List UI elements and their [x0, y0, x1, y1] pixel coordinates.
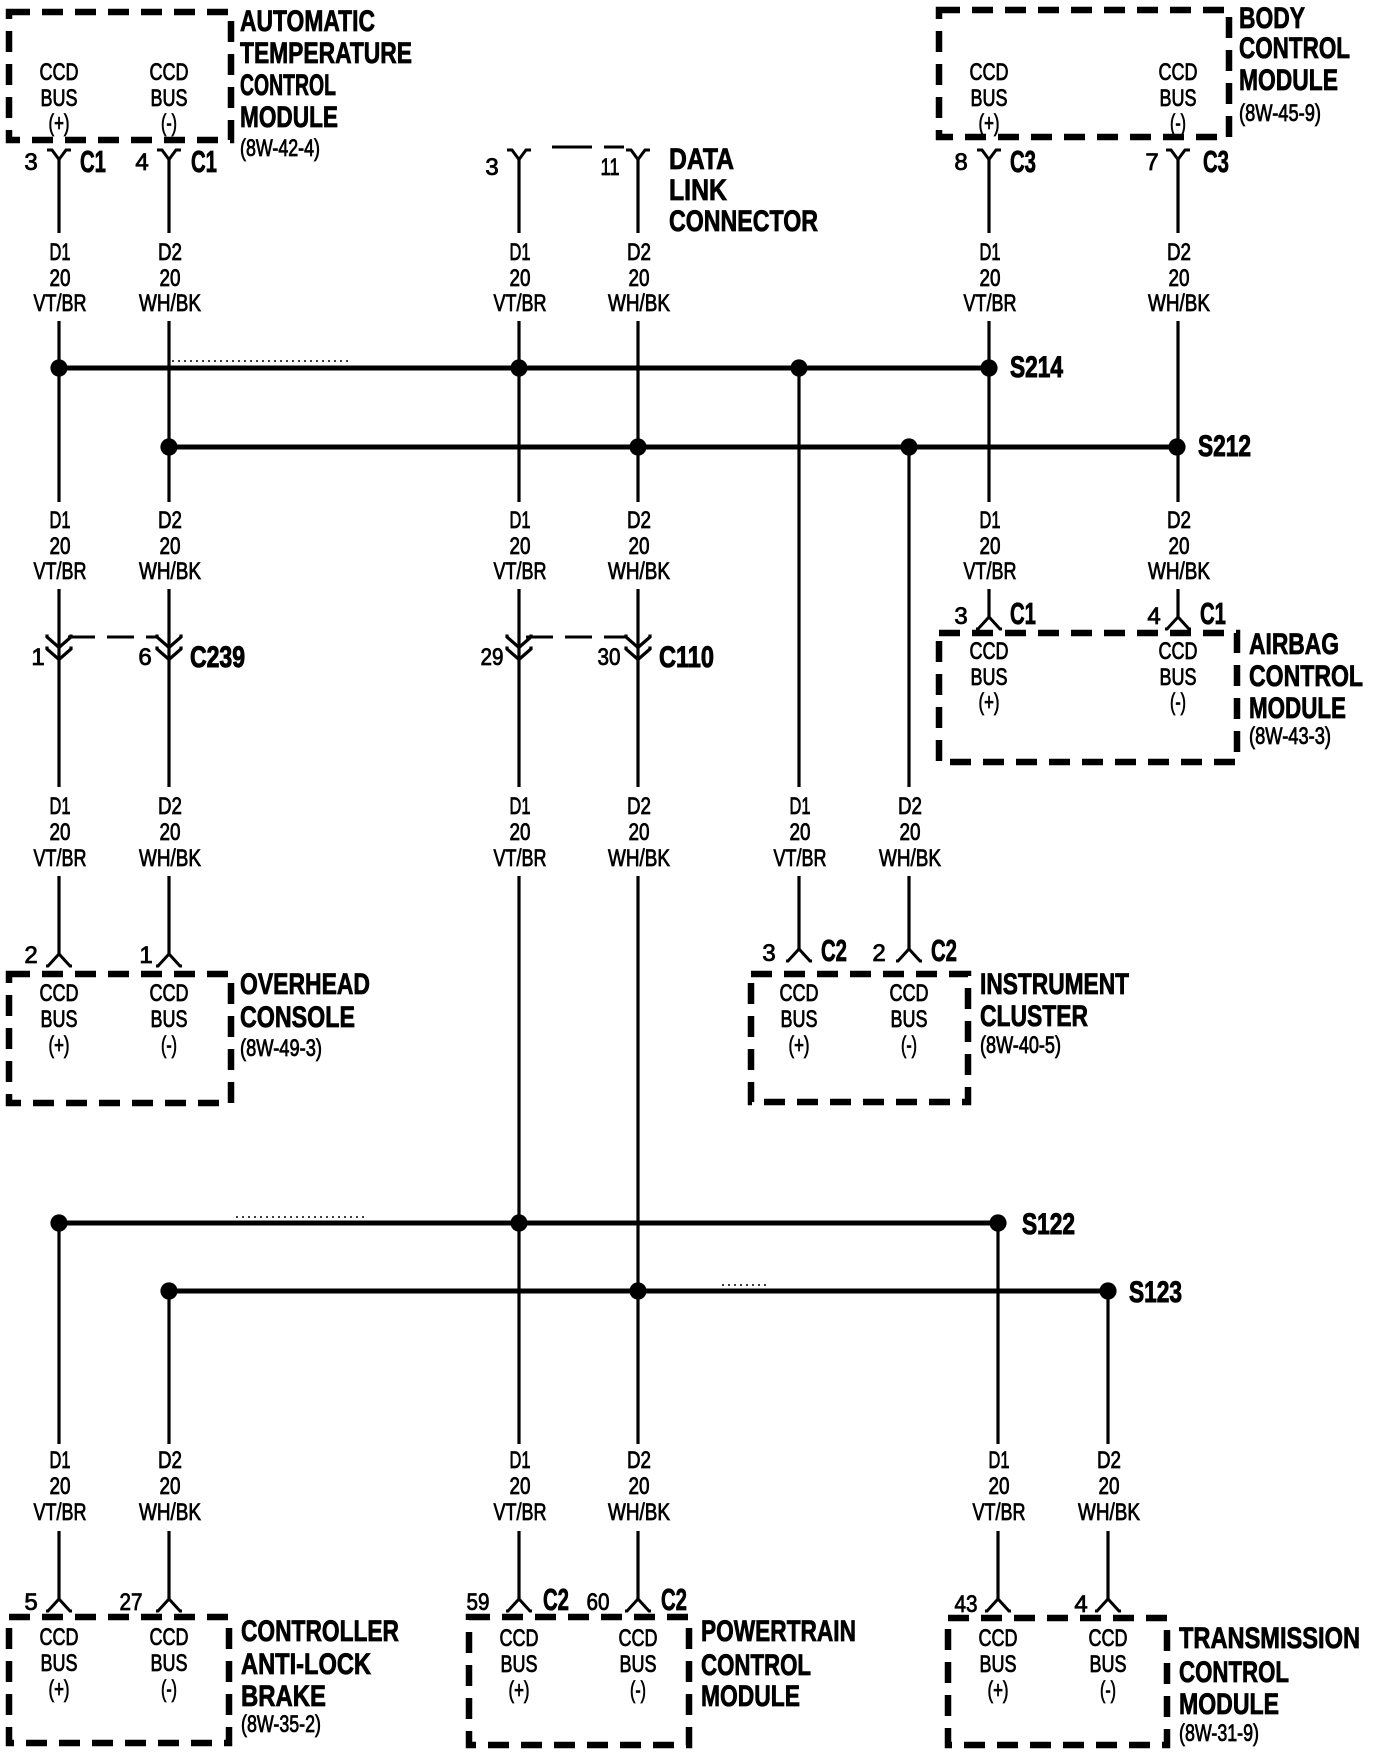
svg-text:20: 20	[1169, 533, 1190, 560]
svg-text:D1: D1	[510, 1447, 531, 1474]
connector C3 pin 8 (body control module)	[954, 144, 1036, 179]
wire D2 WH/BK left column segment y321-502	[167, 321, 170, 502]
svg-text:60: 60	[587, 1589, 610, 1616]
connector symbol instrument cluster C2 pin 3	[786, 949, 812, 961]
svg-text:7: 7	[1145, 149, 1158, 176]
connector C239 pin 1	[31, 635, 71, 672]
connector pin 1 (overhead console)	[139, 942, 182, 969]
svg-text:C2: C2	[821, 933, 847, 968]
connector C2 pin 2 (instrument cluster)	[872, 933, 957, 968]
svg-text:CONSOLE: CONSOLE	[240, 1001, 355, 1034]
svg-text:20: 20	[160, 819, 181, 846]
svg-text:D1: D1	[790, 793, 811, 820]
svg-text:C110: C110	[659, 641, 714, 674]
connector symbol ABS pin 5	[46, 1599, 72, 1611]
dashed outline controller anti-lock brake	[9, 1617, 229, 1743]
svg-text:D2: D2	[627, 793, 651, 820]
svg-text:BUS: BUS	[980, 1651, 1017, 1678]
wire D2 WH/BK BCM/airbag column segment y589-617	[1176, 589, 1179, 617]
wire D1 VT/BR instrument cluster column segment y876-949	[797, 876, 800, 949]
svg-text:D2: D2	[1097, 1447, 1121, 1474]
label BODY CONTROL MODULE (8W-45-9)	[1239, 2, 1350, 127]
svg-text:CONTROL: CONTROL	[701, 1649, 811, 1682]
connector pin 27 (controller anti-lock brake)	[120, 1589, 183, 1616]
svg-text:CONTROL: CONTROL	[240, 69, 336, 102]
svg-text:TEMPERATURE: TEMPERATURE	[240, 37, 412, 70]
svg-text:D2: D2	[158, 507, 182, 534]
svg-text:(8W-31-9): (8W-31-9)	[1179, 1720, 1259, 1747]
svg-text:D2: D2	[898, 793, 922, 820]
wire D1 VT/BR instrument cluster column segment y368-787	[797, 368, 800, 787]
label wire D1 20 VT/BR (above overhead console)	[34, 793, 87, 872]
svg-text:20: 20	[629, 265, 650, 292]
junction S212 at left column	[160, 438, 177, 455]
svg-text:CCD: CCD	[40, 980, 79, 1007]
svg-text:5: 5	[24, 1589, 37, 1616]
connector data link connector pin 3	[485, 150, 531, 181]
label wire D2 20 WH/BK (BCM drop)	[1148, 239, 1210, 317]
svg-text:(+): (+)	[789, 1032, 810, 1059]
svg-text:WH/BK: WH/BK	[1148, 290, 1210, 317]
svg-text:(+): (+)	[49, 110, 70, 137]
label wire D1 20 VT/BR (above PCM)	[494, 1447, 547, 1526]
wire speckle artifact above S214	[172, 360, 348, 362]
svg-text:20: 20	[160, 1473, 181, 1500]
svg-text:(8W-43-3): (8W-43-3)	[1249, 723, 1331, 750]
svg-text:CCD: CCD	[1159, 59, 1198, 86]
svg-text:(+): (+)	[979, 110, 1000, 137]
svg-text:D1: D1	[980, 239, 1001, 266]
wire dashed link between DLC pins	[552, 146, 624, 149]
svg-text:S123: S123	[1129, 1276, 1182, 1309]
connector symbol PCM C2 pin 60	[625, 1599, 651, 1611]
connector symbol C239 pin 1 double chevron	[47, 635, 71, 660]
connector symbol C110 pin 29 double chevron	[507, 635, 531, 660]
label wire D1 20 VT/BR (above airbag)	[964, 507, 1017, 585]
wire D2 WH/BK DLC/PCM column segment y876-1444	[636, 876, 639, 1444]
connector pin 4 (transmission control module)	[1074, 1591, 1121, 1618]
svg-text:C239: C239	[190, 641, 245, 674]
svg-text:CONTROL: CONTROL	[1249, 660, 1363, 693]
svg-text:C2: C2	[931, 933, 957, 968]
svg-text:(-): (-)	[1170, 689, 1186, 716]
svg-text:S122: S122	[1022, 1208, 1075, 1241]
label wire D1 20 VT/BR (above ABS)	[34, 1447, 87, 1526]
wire D2 WH/BK DLC/PCM column segment y1531-1599	[636, 1531, 639, 1599]
svg-text:D1: D1	[989, 1447, 1010, 1474]
svg-text:20: 20	[1169, 265, 1190, 292]
svg-text:VT/BR: VT/BR	[34, 558, 87, 585]
label DATA LINK CONNECTOR	[669, 143, 818, 238]
svg-text:(+): (+)	[988, 1677, 1009, 1704]
wire D2 WH/BK left column segment y876-954	[167, 876, 170, 954]
svg-text:D2: D2	[158, 239, 182, 266]
dashed outline instrument cluster	[751, 974, 968, 1102]
label wire D2 20 WH/BK (mid DLC column)	[608, 793, 670, 872]
svg-text:(+): (+)	[509, 1677, 530, 1704]
connector symbol TCM pin 4	[1095, 1599, 1121, 1611]
label CONTROLLER ANTI-LOCK BRAKE (8W-35-2)	[241, 1615, 399, 1738]
wire D2 WH/BK BCM/airbag column segment y158-233	[1176, 158, 1179, 233]
svg-text:20: 20	[510, 1473, 531, 1500]
svg-text:D1: D1	[50, 239, 71, 266]
wire D1 VT/BR BCM/airbag column segment y321-502	[987, 321, 990, 502]
svg-text:(8W-42-4): (8W-42-4)	[240, 135, 320, 162]
svg-text:20: 20	[510, 819, 531, 846]
connector symbol airbag C1 pin 3	[976, 617, 1002, 629]
wire D1 VT/BR left column segment y321-502	[57, 321, 60, 502]
connector symbol PCM C2 pin 59	[506, 1599, 532, 1611]
wire D1 VT/BR transmission column segment y1531-1599	[996, 1531, 999, 1599]
label wire D2 20 WH/BK (above PCM)	[608, 1447, 670, 1526]
svg-text:3: 3	[762, 940, 775, 967]
svg-text:CCD: CCD	[890, 980, 929, 1007]
svg-text:43: 43	[955, 1591, 978, 1618]
svg-text:4: 4	[1147, 603, 1160, 630]
svg-text:AIRBAG: AIRBAG	[1249, 628, 1339, 661]
label wire D1 20 VT/BR (BCM drop)	[964, 239, 1017, 317]
svg-text:CONTROLLER: CONTROLLER	[241, 1615, 399, 1648]
label wire D1 20 VT/BR (ATC drop)	[34, 239, 87, 317]
svg-text:CONNECTOR: CONNECTOR	[669, 205, 818, 238]
label wire D1 20 VT/BR (above instrument cluster)	[774, 793, 827, 872]
svg-text:C2: C2	[661, 1582, 687, 1617]
svg-text:(-): (-)	[1170, 110, 1186, 137]
svg-text:CCD: CCD	[500, 1625, 539, 1652]
junction S122 at left column	[50, 1214, 67, 1231]
wire D1 VT/BR BCM/airbag column segment y589-617	[987, 589, 990, 617]
svg-text:D1: D1	[510, 507, 531, 534]
svg-text:VT/BR: VT/BR	[964, 290, 1017, 317]
svg-text:CCD: CCD	[970, 59, 1009, 86]
svg-text:20: 20	[160, 533, 181, 560]
svg-text:CONTROL: CONTROL	[1239, 32, 1350, 65]
svg-text:VT/BR: VT/BR	[494, 558, 547, 585]
label wire D2 20 WH/BK (above ABS)	[139, 1447, 201, 1526]
svg-text:8: 8	[954, 149, 967, 176]
svg-text:BUS: BUS	[151, 1006, 188, 1033]
junction S122 at PCM D1 column	[510, 1214, 527, 1231]
svg-text:D2: D2	[627, 239, 651, 266]
wire dashed link C110	[526, 636, 626, 639]
svg-text:(8W-49-3): (8W-49-3)	[240, 1035, 322, 1062]
wire bus S123 horizontal	[169, 1289, 1108, 1294]
svg-text:(-): (-)	[161, 1032, 177, 1059]
svg-text:(+): (+)	[49, 1032, 70, 1059]
junction S123 at PCM D2 column	[629, 1282, 646, 1299]
connector symbol DLC pin 11	[626, 150, 650, 160]
wire speckle artifact left of S123	[722, 1284, 768, 1286]
svg-text:20: 20	[790, 819, 811, 846]
label wire D2 20 WH/BK (above instrument cluster)	[879, 793, 941, 872]
label wire D2 20 WH/BK (above TCM)	[1078, 1447, 1140, 1526]
svg-text:20: 20	[980, 265, 1001, 292]
wire D2 WH/BK instrument cluster column segment y447-787	[907, 447, 910, 787]
svg-text:3: 3	[24, 149, 37, 176]
svg-text:BUS: BUS	[620, 1651, 657, 1678]
svg-text:BUS: BUS	[41, 1006, 78, 1033]
connector symbol DLC pin 3	[507, 150, 531, 160]
svg-text:DATA: DATA	[669, 143, 734, 176]
svg-text:INSTRUMENT: INSTRUMENT	[980, 968, 1129, 1001]
svg-text:4: 4	[135, 149, 148, 176]
svg-text:CCD: CCD	[619, 1625, 658, 1652]
wire D1 VT/BR left column segment y1223-1444	[57, 1223, 60, 1444]
svg-text:WH/BK: WH/BK	[1148, 558, 1210, 585]
svg-text:VT/BR: VT/BR	[494, 845, 547, 872]
svg-text:WH/BK: WH/BK	[1078, 1499, 1140, 1526]
svg-text:20: 20	[160, 265, 181, 292]
junction S212 at instrument D2 column	[900, 438, 917, 455]
connector symbol C110 pin 30 double chevron	[626, 635, 650, 660]
svg-text:2: 2	[872, 940, 885, 967]
svg-text:WH/BK: WH/BK	[139, 290, 201, 317]
svg-text:OVERHEAD: OVERHEAD	[240, 968, 370, 1001]
svg-text:VT/BR: VT/BR	[774, 845, 827, 872]
svg-text:MODULE: MODULE	[1249, 692, 1346, 725]
svg-text:BUS: BUS	[151, 85, 188, 112]
wire D2 WH/BK DLC/PCM column segment y321-502	[636, 321, 639, 502]
svg-text:AUTOMATIC: AUTOMATIC	[240, 5, 375, 38]
svg-text:D2: D2	[1167, 239, 1191, 266]
svg-text:CCD: CCD	[1089, 1625, 1128, 1652]
svg-text:C1: C1	[80, 144, 106, 179]
svg-text:C1: C1	[1200, 596, 1226, 631]
svg-text:BRAKE: BRAKE	[241, 1680, 326, 1713]
svg-text:BUS: BUS	[1160, 664, 1197, 691]
dashed outline transmission control module	[948, 1618, 1167, 1745]
svg-text:TRANSMISSION: TRANSMISSION	[1179, 1622, 1360, 1655]
connector symbol overhead console pin 2	[46, 954, 72, 966]
label wire D2 20 WH/BK (above overhead console)	[139, 793, 201, 872]
svg-text:D1: D1	[980, 507, 1001, 534]
svg-text:VT/BR: VT/BR	[494, 290, 547, 317]
label TRANSMISSION CONTROL MODULE (8W-31-9)	[1179, 1622, 1360, 1747]
connector C110 pin 30	[598, 635, 651, 672]
svg-text:BUS: BUS	[1090, 1651, 1127, 1678]
connector symbol ABS pin 27	[156, 1599, 182, 1611]
svg-text:CCD: CCD	[970, 638, 1009, 665]
label wire D1 20 VT/BR (above C110)	[494, 507, 547, 585]
label wire D2 20 WH/BK (above C110)	[608, 507, 670, 585]
wire D1 VT/BR left column segment y158-233	[57, 158, 60, 233]
svg-text:CCD: CCD	[40, 59, 79, 86]
svg-text:D1: D1	[510, 793, 531, 820]
label wire D2 20 WH/BK (ATC drop)	[139, 239, 201, 317]
wire dashed link C239	[68, 636, 158, 639]
svg-text:(+): (+)	[49, 1676, 70, 1703]
svg-text:20: 20	[510, 265, 531, 292]
svg-text:C1: C1	[191, 144, 217, 179]
wire D1 VT/BR left column segment y876-954	[57, 876, 60, 954]
connector C1 pin 4 (ATC module, CCD bus -)	[135, 144, 217, 179]
connector pin 5 (controller anti-lock brake)	[24, 1589, 72, 1616]
svg-text:CLUSTER: CLUSTER	[980, 1000, 1088, 1033]
label wire D2 20 WH/BK (DLC drop)	[608, 239, 670, 317]
connector C3 pin 7 (body control module)	[1145, 144, 1229, 179]
svg-text:BUS: BUS	[501, 1651, 538, 1678]
svg-text:POWERTRAIN: POWERTRAIN	[701, 1615, 856, 1648]
svg-text:VT/BR: VT/BR	[34, 1499, 87, 1526]
svg-text:S212: S212	[1198, 430, 1251, 463]
svg-text:LINK: LINK	[669, 174, 727, 207]
svg-text:BUS: BUS	[151, 1650, 188, 1677]
svg-text:(-): (-)	[161, 110, 177, 137]
svg-text:MODULE: MODULE	[1239, 64, 1338, 97]
junction S122 right end	[989, 1214, 1006, 1231]
svg-text:VT/BR: VT/BR	[34, 290, 87, 317]
svg-text:BUS: BUS	[41, 1650, 78, 1677]
wire D1 VT/BR DLC/PCM column segment y589-787	[517, 589, 520, 787]
svg-text:1: 1	[139, 942, 152, 969]
svg-text:MODULE: MODULE	[1179, 1688, 1279, 1721]
svg-text:20: 20	[50, 533, 71, 560]
svg-text:20: 20	[900, 819, 921, 846]
label POWERTRAIN CONTROL MODULE	[701, 1615, 856, 1713]
svg-text:MODULE: MODULE	[701, 1680, 800, 1713]
svg-text:CONTROL: CONTROL	[1179, 1656, 1289, 1689]
svg-text:S214: S214	[1010, 351, 1063, 384]
svg-text:C3: C3	[1010, 144, 1036, 179]
label wire D2 20 WH/BK (above C239)	[139, 507, 201, 585]
svg-text:27: 27	[120, 1589, 143, 1616]
svg-text:CCD: CCD	[150, 1624, 189, 1651]
svg-text:BUS: BUS	[891, 1006, 928, 1033]
junction S214 at instrument D1 column	[790, 359, 807, 376]
svg-text:20: 20	[629, 533, 650, 560]
label AUTOMATIC TEMPERATURE CONTROL MODULE (8W-42-4)	[240, 5, 412, 162]
label wire D1 20 VT/BR (above TCM)	[973, 1447, 1026, 1526]
svg-text:20: 20	[989, 1473, 1010, 1500]
svg-text:MODULE: MODULE	[240, 101, 338, 134]
junction S123 at left column	[160, 1282, 177, 1299]
svg-text:WH/BK: WH/BK	[608, 845, 670, 872]
svg-text:WH/BK: WH/BK	[608, 290, 670, 317]
wire D2 WH/BK left column segment y1531-1599	[167, 1531, 170, 1599]
svg-text:D1: D1	[50, 1447, 71, 1474]
svg-text:VT/BR: VT/BR	[494, 1499, 547, 1526]
svg-text:D2: D2	[627, 1447, 651, 1474]
label OVERHEAD CONSOLE (8W-49-3)	[240, 968, 370, 1062]
svg-text:BUS: BUS	[41, 85, 78, 112]
svg-text:C2: C2	[543, 1582, 569, 1617]
wire D2 WH/BK left column segment y589-787	[167, 589, 170, 787]
svg-text:(-): (-)	[1100, 1677, 1116, 1704]
svg-text:CCD: CCD	[780, 980, 819, 1007]
svg-text:VT/BR: VT/BR	[973, 1499, 1026, 1526]
svg-text:59: 59	[467, 1589, 490, 1616]
label AIRBAG CONTROL MODULE (8W-43-3)	[1249, 628, 1363, 750]
dashed outline body control module	[939, 10, 1229, 137]
wire speckle artifact above S122	[236, 1216, 366, 1218]
svg-text:D2: D2	[1167, 507, 1191, 534]
svg-text:BUS: BUS	[971, 85, 1008, 112]
connector pin 43 (transmission control module)	[955, 1591, 1012, 1618]
svg-text:D2: D2	[158, 1447, 182, 1474]
connector symbol C1 pin 4	[157, 150, 181, 160]
svg-text:BODY: BODY	[1239, 2, 1305, 35]
junction S212 right end	[1168, 438, 1185, 455]
dashed outline overhead console	[9, 974, 231, 1103]
connector pin 2 (overhead console)	[24, 942, 72, 969]
connector symbol C3 pin 7	[1166, 150, 1190, 160]
svg-text:BUS: BUS	[971, 664, 1008, 691]
svg-text:20: 20	[50, 265, 71, 292]
svg-text:20: 20	[510, 533, 531, 560]
junction S214 at DLC D1 column	[510, 359, 527, 376]
svg-text:(-): (-)	[161, 1676, 177, 1703]
connector C1 pin 3 (airbag control module)	[954, 596, 1036, 631]
wire D2 WH/BK transmission column segment y1291-1444	[1106, 1291, 1109, 1444]
label wire D1 20 VT/BR (mid DLC column)	[494, 793, 547, 872]
wire D2 WH/BK DLC/PCM column segment y158-233	[636, 158, 639, 233]
svg-text:11: 11	[601, 154, 620, 181]
connector symbol C3 pin 8	[977, 150, 1001, 160]
svg-text:D2: D2	[158, 793, 182, 820]
svg-text:CCD: CCD	[979, 1625, 1018, 1652]
svg-text:D1: D1	[50, 793, 71, 820]
connector symbol C239 pin 6 double chevron	[157, 635, 181, 660]
svg-text:WH/BK: WH/BK	[608, 1499, 670, 1526]
svg-text:20: 20	[50, 1473, 71, 1500]
connector C2 pin 3 (instrument cluster)	[762, 933, 847, 968]
label wire D2 20 WH/BK (above airbag)	[1148, 507, 1210, 585]
wire D1 VT/BR DLC/PCM column segment y321-502	[517, 321, 520, 502]
junction S214 right end	[980, 359, 997, 376]
wire bus S214 horizontal	[59, 366, 989, 371]
svg-text:WH/BK: WH/BK	[608, 558, 670, 585]
wire D2 WH/BK transmission column segment y1531-1599	[1106, 1531, 1109, 1599]
connector symbol airbag C1 pin 4	[1165, 617, 1191, 629]
connector symbol C1 pin 3	[47, 150, 71, 160]
wire D1 VT/BR DLC/PCM column segment y876-1444	[517, 876, 520, 1444]
wire D1 VT/BR BCM/airbag column segment y158-233	[987, 158, 990, 233]
svg-text:(8W-35-2): (8W-35-2)	[241, 1711, 321, 1738]
svg-text:WH/BK: WH/BK	[139, 845, 201, 872]
svg-text:WH/BK: WH/BK	[879, 845, 941, 872]
svg-text:20: 20	[1099, 1473, 1120, 1500]
svg-text:(+): (+)	[979, 689, 1000, 716]
connector C239 pin 6	[138, 635, 181, 672]
wire D1 VT/BR left column segment y1531-1599	[57, 1531, 60, 1599]
connector symbol instrument cluster C2 pin 2	[896, 949, 922, 961]
svg-text:6: 6	[138, 644, 151, 671]
wire D2 WH/BK DLC/PCM column segment y589-787	[636, 589, 639, 787]
connector C2 pin 60 (powertrain control module)	[587, 1582, 688, 1617]
svg-text:4: 4	[1074, 1591, 1087, 1618]
svg-text:30: 30	[598, 644, 621, 671]
svg-text:VT/BR: VT/BR	[34, 845, 87, 872]
svg-text:CCD: CCD	[150, 59, 189, 86]
wire bus S212 horizontal	[169, 445, 1177, 450]
svg-text:CCD: CCD	[150, 980, 189, 1007]
wire D2 WH/BK BCM/airbag column segment y321-502	[1176, 321, 1179, 502]
svg-text:WH/BK: WH/BK	[139, 558, 201, 585]
dashed outline ATC module	[9, 12, 231, 140]
svg-text:BUS: BUS	[1160, 85, 1197, 112]
label wire D1 20 VT/BR (DLC drop)	[494, 239, 547, 317]
label wire D1 20 VT/BR (above C239)	[34, 507, 87, 585]
svg-text:C1: C1	[1010, 596, 1036, 631]
junction S123 right end	[1099, 1282, 1116, 1299]
svg-text:20: 20	[980, 533, 1001, 560]
svg-text:3: 3	[954, 603, 967, 630]
connector C2 pin 59 (powertrain control module)	[467, 1582, 570, 1617]
svg-text:VT/BR: VT/BR	[964, 558, 1017, 585]
svg-text:(-): (-)	[901, 1032, 917, 1059]
wire bus S122 horizontal	[59, 1221, 998, 1226]
wire D2 WH/BK left column segment y1291-1444	[167, 1291, 170, 1444]
